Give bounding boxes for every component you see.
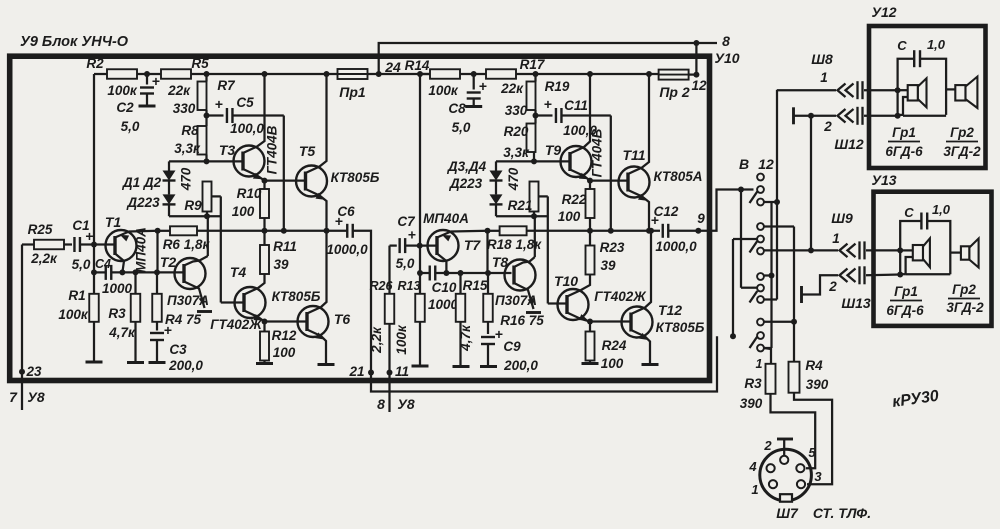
svg-text:+: + — [479, 78, 487, 94]
speaker Gr1 (U12) — [898, 78, 927, 115]
svg-text:39: 39 — [273, 257, 289, 272]
svg-text:R25: R25 — [28, 222, 53, 237]
svg-text:R24: R24 — [602, 338, 627, 353]
label U13 — [871, 172, 896, 188]
node 12 junction wire — [693, 40, 699, 78]
speaker Gr2 (U12) — [946, 77, 977, 108]
svg-text:1: 1 — [820, 70, 828, 85]
wire T4 emitter — [244, 311, 268, 325]
speaker Gr2 (U13) — [950, 239, 978, 268]
wire T6 collector — [307, 231, 327, 314]
wire input 23 — [19, 245, 25, 411]
wire output rail — [158, 228, 347, 234]
svg-text:470: 470 — [179, 167, 194, 191]
svg-text:Т9: Т9 — [545, 142, 562, 158]
wire Sh8 pin2 connector — [838, 107, 901, 125]
label GT402Zh (T10 type) — [594, 289, 647, 304]
svg-text:6ГД-6: 6ГД-6 — [885, 144, 923, 159]
svg-text:330: 330 — [505, 103, 528, 118]
label Gr1 6GD-6 (U12) — [885, 125, 923, 159]
label Gr2 3GD-2 (U13) — [946, 282, 984, 315]
wire U12 cap loop — [898, 59, 947, 116]
svg-text:Т3: Т3 — [219, 142, 236, 158]
label node 12 — [691, 78, 707, 93]
svg-text:С12: С12 — [654, 204, 679, 219]
wire R21 tap — [539, 196, 548, 303]
wire R14 left drop — [417, 71, 430, 294]
svg-text:+: + — [164, 322, 172, 338]
resistor R2 — [86, 56, 137, 98]
svg-text:2,2к: 2,2к — [369, 326, 384, 354]
wire switch to R3 — [764, 348, 771, 364]
wire T11 collector — [628, 71, 652, 174]
svg-text:1,0: 1,0 — [927, 37, 946, 52]
switch V12 contacts — [750, 174, 764, 352]
svg-text:R6 1,8к: R6 1,8к — [163, 237, 211, 252]
node T1 base — [91, 242, 116, 248]
node 24 — [376, 59, 401, 77]
svg-text:В: В — [739, 156, 749, 172]
svg-text:Д223: Д223 — [126, 195, 160, 210]
wire T5 emitter — [306, 189, 327, 231]
capacitor C9 — [480, 326, 538, 373]
transistor T8 — [492, 254, 536, 291]
wire T8 emitter — [514, 283, 541, 313]
wire T10 collector — [567, 275, 590, 297]
wire switch bus C — [764, 90, 780, 300]
svg-text:3ГД-2: 3ГД-2 — [943, 144, 981, 159]
wire T3 collector — [243, 71, 268, 153]
resistor R18 — [487, 226, 542, 252]
capacitor C2 — [116, 71, 160, 134]
speaker box U12 outline — [869, 26, 986, 168]
resistor R16 — [483, 231, 544, 334]
wire diode node to T2 collector — [200, 216, 208, 260]
wire R9 tap — [212, 196, 221, 302]
svg-text:100к: 100к — [107, 83, 138, 98]
svg-text:Ш7: Ш7 — [776, 505, 799, 521]
wire Sh8 pin1 — [777, 81, 901, 99]
terminal bar Sh13 pin2 — [802, 275, 839, 303]
node T3 base — [204, 155, 244, 165]
svg-text:R23: R23 — [600, 240, 625, 255]
node R5-R7 — [204, 71, 210, 77]
svg-text:R19: R19 — [545, 79, 570, 94]
transistor T9 — [545, 142, 592, 177]
svg-text:Т1: Т1 — [105, 214, 122, 230]
resistor R13 — [394, 279, 429, 366]
svg-text:Пр1: Пр1 — [339, 84, 366, 100]
svg-text:Ш13: Ш13 — [841, 295, 870, 311]
svg-text:+: + — [215, 96, 223, 112]
svg-text:R22: R22 — [562, 192, 587, 207]
label Sh8 — [811, 51, 833, 85]
capacitor C8 — [448, 71, 487, 135]
svg-text:+: + — [495, 326, 503, 342]
label KT805B (T5 type) — [331, 170, 380, 185]
wire T12 emitter — [631, 330, 659, 365]
wire Sh12 to Sh9 junction — [808, 116, 814, 254]
label node 9 — [697, 211, 705, 226]
transistor T12 — [622, 302, 683, 338]
label KT805B (T6 type) — [272, 289, 321, 304]
svg-text:+: + — [544, 96, 552, 112]
wire R4 to pin3 — [794, 393, 832, 485]
svg-text:100,0: 100,0 — [230, 121, 264, 136]
label Sh7 ST TLF — [776, 505, 871, 521]
wire T9 collector — [570, 71, 593, 154]
node R19-R20 — [533, 110, 539, 124]
wire switch bus D — [764, 202, 775, 348]
wire T9e to T11 base — [590, 179, 629, 181]
svg-text:Гр1: Гр1 — [892, 125, 916, 140]
resistor R20 — [503, 124, 535, 161]
svg-text:1,0: 1,0 — [932, 202, 951, 217]
svg-text:11: 11 — [395, 364, 409, 379]
svg-text:С: С — [897, 38, 907, 53]
svg-text:4: 4 — [748, 459, 757, 474]
svg-text:100: 100 — [232, 204, 255, 219]
capacitor C4 — [95, 257, 132, 296]
svg-text:Т12: Т12 — [658, 302, 682, 318]
svg-text:Т11: Т11 — [622, 147, 645, 163]
wire C5 to T5 base / rail — [283, 116, 285, 231]
wire C6 output to node 21 — [353, 231, 717, 392]
svg-text:С2: С2 — [116, 100, 134, 115]
svg-text:КТ805Б: КТ805Б — [272, 289, 321, 304]
wire switch bus B — [730, 239, 757, 339]
wire T6 emitter — [307, 330, 335, 365]
svg-text:R16 75: R16 75 — [500, 313, 544, 328]
wire Sh9 pin2 connector — [840, 266, 904, 284]
svg-text:9: 9 — [697, 211, 705, 226]
svg-text:У10: У10 — [714, 50, 739, 66]
svg-text:3ГД-2: 3ГД-2 — [946, 300, 984, 315]
label U12 — [871, 4, 896, 20]
handwritten note kRU30 — [891, 388, 940, 411]
svg-text:КТ805Б: КТ805Б — [331, 170, 380, 185]
wire supply rail to terminal 8 — [379, 43, 717, 74]
transistor T4 — [230, 264, 266, 318]
resistor R19 — [505, 74, 570, 118]
resistor R26 — [369, 246, 394, 412]
speaker Gr1 (U13) — [900, 238, 930, 274]
svg-text:6ГД-6: 6ГД-6 — [886, 303, 924, 318]
svg-text:Пр 2: Пр 2 — [659, 84, 690, 100]
transistor T11 — [619, 147, 650, 198]
wire T7 collector down — [437, 254, 449, 277]
label GT402Zh (T4 type) — [210, 317, 263, 332]
svg-text:Гр2: Гр2 — [950, 125, 974, 140]
svg-text:5,0: 5,0 — [452, 120, 471, 135]
node 21 — [348, 364, 374, 379]
svg-text:3,3к: 3,3к — [174, 141, 201, 156]
wire switch bus E — [764, 227, 797, 362]
svg-text:R2: R2 — [86, 56, 104, 71]
capacitor C11 — [536, 96, 611, 138]
wire T9 emitter — [570, 170, 593, 184]
svg-text:МП40А: МП40А — [423, 211, 469, 226]
svg-text:КТ805А: КТ805А — [654, 169, 703, 184]
capacitor C7 — [390, 214, 420, 271]
wire U13 cap loop — [900, 221, 950, 275]
transistor T5 — [296, 143, 327, 197]
label block U9 — [20, 34, 129, 50]
label D1 D2 — [122, 175, 162, 210]
wire T10e to T12 base — [590, 320, 632, 322]
svg-text:3: 3 — [814, 469, 822, 484]
svg-text:+: + — [152, 73, 160, 89]
pin 1 of Sh7 — [769, 480, 777, 488]
svg-text:R3: R3 — [108, 306, 126, 321]
svg-text:У9 Блок УНЧ-О: У9 Блок УНЧ-О — [20, 34, 129, 50]
svg-text:R15: R15 — [463, 278, 488, 293]
node R7-R8 — [204, 110, 210, 126]
svg-text:С9: С9 — [503, 339, 521, 354]
wire T8 collector — [514, 262, 530, 268]
resistor R1 — [58, 288, 102, 362]
svg-text:1000,0: 1000,0 — [655, 239, 697, 254]
wire switch bus A — [738, 187, 757, 288]
svg-text:R21: R21 — [508, 198, 533, 213]
resistor R25 — [22, 222, 72, 266]
capacitor C1 — [72, 218, 94, 272]
svg-text:R5: R5 — [191, 56, 209, 71]
pin 5 of Sh7 — [796, 464, 804, 472]
wire C10 row — [417, 270, 512, 276]
pin 2 of Sh7 — [780, 456, 788, 464]
svg-text:R12: R12 — [272, 328, 297, 343]
svg-text:Т7: Т7 — [464, 237, 482, 253]
wire diode node to T8 collector — [530, 216, 535, 261]
svg-text:R20: R20 — [504, 124, 529, 139]
node R17-R19 — [533, 71, 539, 77]
wire C4 row — [91, 269, 185, 275]
svg-text:390: 390 — [806, 377, 829, 392]
resistor R24 — [582, 322, 627, 372]
capacitor C5 — [207, 95, 284, 136]
svg-text:ГТ404В: ГТ404В — [590, 128, 605, 177]
svg-text:5,0: 5,0 — [396, 256, 415, 271]
svg-text:Ш9: Ш9 — [831, 210, 853, 226]
svg-text:Д223: Д223 — [449, 176, 483, 191]
wire R3 to pin5 — [771, 394, 816, 468]
svg-text:С4: С4 — [95, 257, 111, 271]
svg-text:8: 8 — [722, 33, 730, 49]
fuse Pr2 — [659, 70, 690, 100]
svg-text:3,3к: 3,3к — [503, 145, 530, 160]
svg-text:1: 1 — [832, 231, 840, 246]
resistor R4 390 — [789, 358, 829, 393]
resistor R21 — [506, 167, 539, 219]
svg-text:390: 390 — [740, 396, 763, 411]
svg-text:Т6: Т6 — [334, 311, 351, 327]
label pin2 Sh13 — [828, 279, 871, 311]
label terminal 8 bottom — [377, 396, 415, 412]
svg-text:Д3,Д4: Д3,Д4 — [447, 159, 487, 174]
diode D2 — [163, 182, 221, 217]
svg-text:С1: С1 — [72, 218, 89, 233]
wire T2 collector — [184, 261, 200, 266]
transistor T3 — [219, 142, 265, 177]
svg-text:КТ805Б: КТ805Б — [656, 320, 705, 335]
resistor R15 — [453, 270, 488, 367]
wire T3 emitter — [243, 169, 268, 184]
svg-text:8: 8 — [377, 396, 385, 412]
wire top rail left channel — [94, 73, 696, 76]
svg-text:У8: У8 — [397, 396, 414, 412]
pin 4 of Sh7 — [767, 464, 775, 472]
svg-text:24: 24 — [384, 59, 401, 75]
svg-text:5,0: 5,0 — [72, 257, 91, 272]
svg-text:Т2: Т2 — [160, 254, 177, 270]
capacitor C6 — [326, 204, 368, 257]
svg-text:С6: С6 — [337, 204, 355, 219]
transistor T2 — [160, 254, 206, 289]
label GT404V (T9 type) — [590, 128, 605, 177]
svg-text:Ш8: Ш8 — [811, 51, 833, 67]
node T9 base — [531, 152, 571, 164]
svg-text:200,0: 200,0 — [503, 358, 538, 373]
svg-text:21: 21 — [348, 364, 364, 379]
svg-text:У12: У12 — [871, 4, 896, 20]
wire T3e to T5 base — [265, 179, 307, 181]
resistor R6 — [163, 226, 211, 252]
svg-text:5: 5 — [808, 445, 816, 460]
connector Sh7 body — [760, 449, 812, 502]
pin 3 of Sh7 — [797, 480, 805, 488]
label P307A (T8 type) — [495, 293, 537, 308]
resistor R3 — [108, 269, 144, 362]
resistor R14 — [405, 58, 460, 98]
svg-text:12: 12 — [758, 156, 774, 172]
svg-text:100: 100 — [601, 356, 624, 371]
svg-text:R14: R14 — [405, 58, 430, 73]
resistor R10 — [232, 181, 269, 231]
svg-text:МП40А: МП40А — [134, 227, 149, 273]
resistor R3 390 — [740, 357, 776, 411]
svg-text:4,7к: 4,7к — [108, 325, 136, 340]
label MP40A (T1 type) — [134, 227, 149, 273]
resistor R9 — [179, 167, 212, 219]
wire T1 emitter up — [115, 228, 161, 242]
label KT805A (T11 type) — [654, 169, 703, 184]
svg-text:R10: R10 — [237, 186, 262, 201]
svg-text:470: 470 — [506, 167, 521, 191]
svg-text:Д1 Д2: Д1 Д2 — [122, 175, 162, 190]
svg-text:R18 1,8к: R18 1,8к — [487, 237, 542, 252]
svg-text:R8: R8 — [181, 123, 199, 138]
transistor T7 — [428, 230, 482, 261]
svg-text:R11: R11 — [273, 239, 297, 254]
svg-text:39: 39 — [600, 258, 616, 273]
svg-text:2,2к: 2,2к — [30, 251, 58, 266]
wire T7 emitter up — [437, 228, 491, 242]
label terminal 7 — [9, 389, 45, 405]
wire T11 emitter — [628, 190, 649, 231]
wire T4e to T6 base — [265, 320, 308, 322]
svg-text:2: 2 — [763, 438, 772, 453]
transistor T10 — [554, 273, 589, 320]
svg-text:100: 100 — [558, 209, 581, 224]
label pin2 Sh12 — [823, 119, 864, 152]
svg-text:У8: У8 — [27, 389, 44, 405]
resistor R7 — [173, 74, 236, 116]
svg-text:С5: С5 — [236, 95, 254, 110]
svg-text:С7: С7 — [397, 214, 416, 229]
node T7 base — [417, 243, 438, 249]
wire output rail right — [488, 228, 661, 234]
svg-text:100: 100 — [273, 345, 296, 360]
resistor R23 — [586, 231, 625, 275]
svg-text:С: С — [904, 205, 914, 220]
label MP40A (T7 type) — [423, 211, 469, 226]
resistor R8 — [174, 123, 206, 156]
svg-text:С8: С8 — [448, 101, 466, 116]
wire T5 collector — [306, 71, 330, 173]
resistor R22 — [558, 181, 595, 231]
labels Sh7 pins — [748, 438, 822, 497]
svg-text:330: 330 — [173, 101, 196, 116]
wire C12 output node 9 — [668, 228, 712, 234]
svg-text:У13: У13 — [871, 172, 896, 188]
svg-text:22к: 22к — [167, 83, 191, 98]
svg-text:200,0: 200,0 — [168, 358, 203, 373]
svg-text:2: 2 — [828, 279, 837, 294]
terminal bar Sh7 pin 2 — [777, 439, 793, 455]
main amplifier block outline (unit U9) — [10, 56, 710, 380]
label Gr1 6GD-6 (U13) — [886, 284, 924, 318]
label KT805B (T12 type) — [656, 320, 705, 335]
capacitor C10 — [428, 266, 459, 313]
svg-text:Т8: Т8 — [492, 254, 509, 270]
diode D3 — [490, 161, 535, 180]
wire T1 collector down — [115, 254, 125, 276]
svg-text:100к: 100к — [394, 324, 409, 355]
svg-text:Т10: Т10 — [554, 273, 578, 289]
svg-text:R17: R17 — [520, 57, 546, 72]
resistor R11 — [260, 231, 297, 274]
svg-text:ГТ402Ж: ГТ402Ж — [594, 289, 647, 304]
label P307A (T2 type) — [167, 293, 209, 308]
wire Sh9 pin1 — [764, 241, 903, 259]
wire T4 collector — [244, 274, 265, 295]
transistor T1 — [105, 214, 137, 261]
svg-text:7: 7 — [9, 389, 18, 405]
capacitor C3 — [149, 322, 204, 373]
transistor T6 — [298, 306, 351, 337]
svg-text:1: 1 — [756, 357, 763, 371]
svg-text:R13: R13 — [398, 279, 421, 293]
fuse Pr1 — [338, 69, 368, 100]
wire node9 to switch — [712, 190, 754, 231]
svg-text:1000: 1000 — [428, 297, 459, 312]
svg-text:100к: 100к — [428, 83, 459, 98]
label switch V12 — [739, 156, 774, 172]
svg-text:С10: С10 — [432, 280, 457, 295]
terminal bar Sh8 pin2 — [794, 107, 837, 124]
svg-text:100к: 100к — [58, 307, 89, 322]
resistor R5 — [161, 56, 209, 98]
label Gr2 3GD-2 (U12) — [943, 125, 981, 159]
wire C11 to T11 base / rail — [610, 116, 612, 231]
label node 23 — [25, 364, 42, 379]
svg-text:R1: R1 — [68, 288, 85, 303]
svg-text:Гр2: Гр2 — [952, 282, 976, 297]
diode D1 — [163, 161, 207, 180]
svg-text:С11: С11 — [564, 98, 588, 113]
wire T12 collector — [631, 228, 654, 314]
